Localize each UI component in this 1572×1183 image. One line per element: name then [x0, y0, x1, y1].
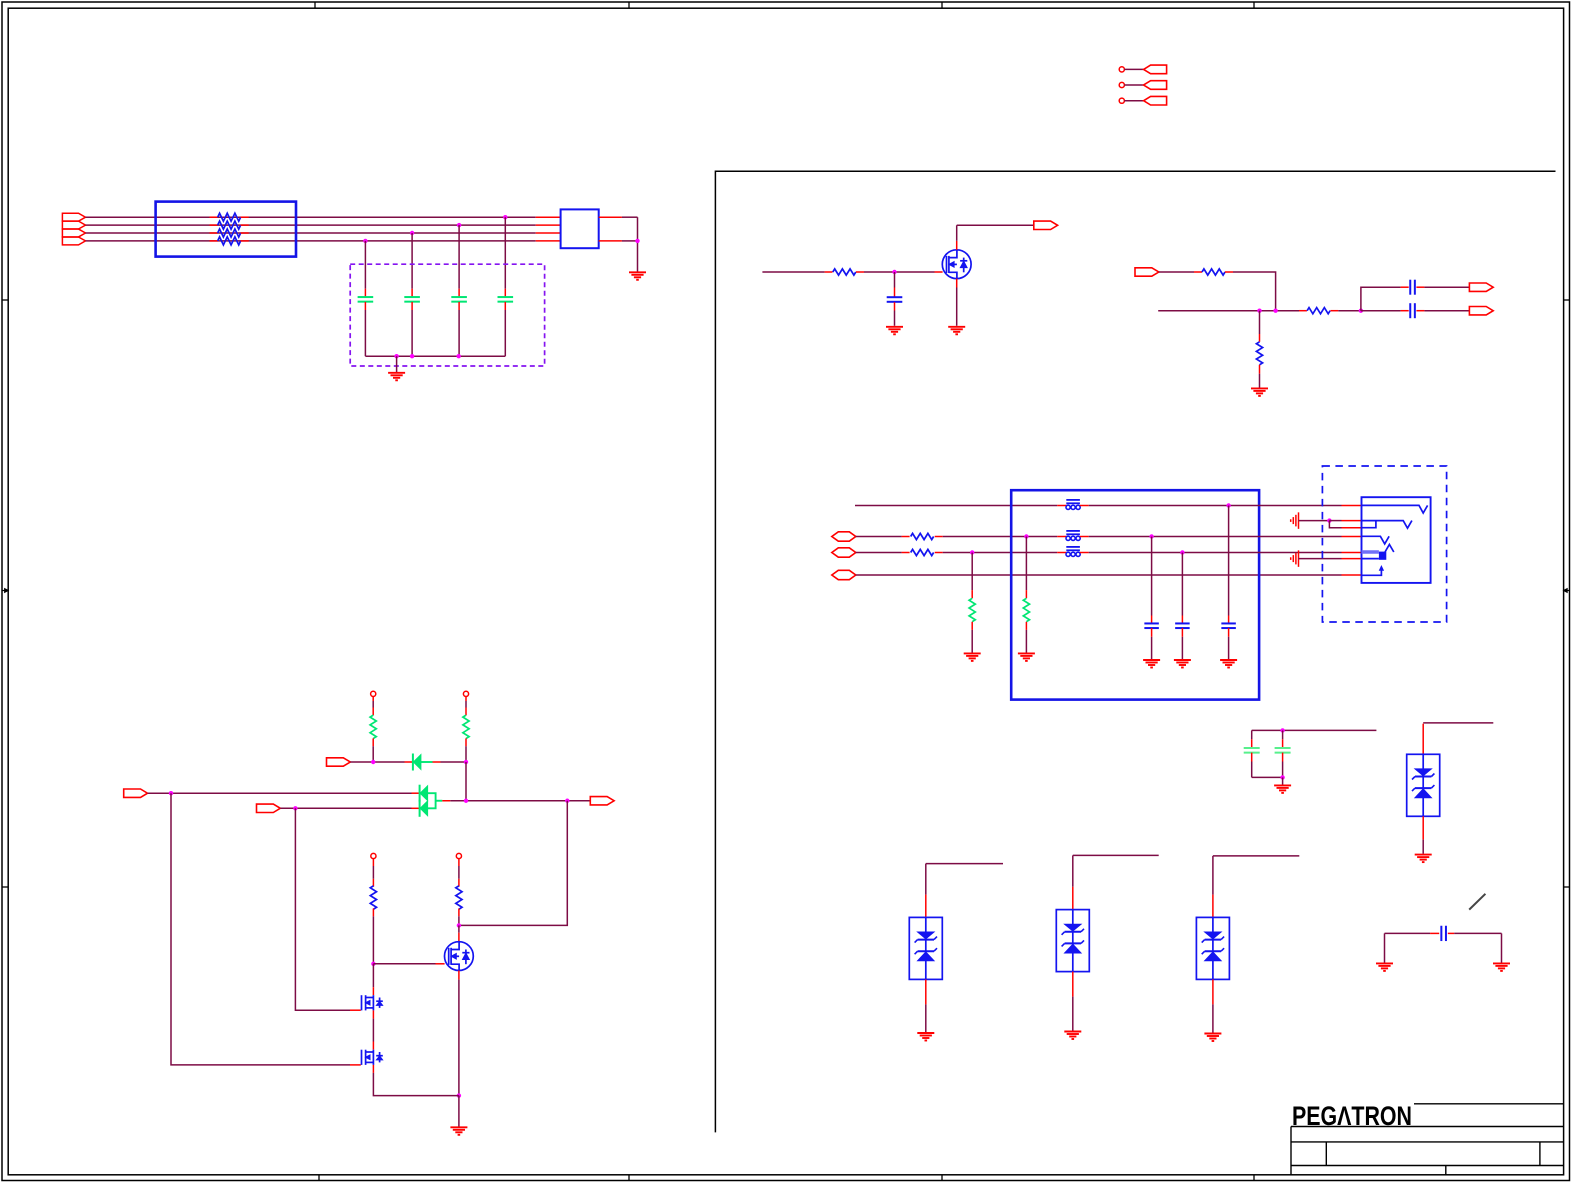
- wire D1 to node: [421, 761, 433, 763]
- port PB: [124, 789, 148, 797]
- wire TVS3 top: [1213, 855, 1299, 857]
- dashed box cap group: [350, 264, 544, 366]
- J3 pin7 internal: [1362, 568, 1382, 575]
- TVS2 gnd lead: [1072, 972, 1074, 997]
- junction dot PD branch: [565, 799, 569, 803]
- section divider line: [715, 171, 1555, 1132]
- port OUT1: [1034, 221, 1058, 229]
- mosfet Q4 small: [361, 1050, 363, 1065]
- wire net3 segs: [856, 552, 902, 554]
- resistor R9: [902, 536, 910, 538]
- wire cap pair top: [1252, 729, 1377, 731]
- resistor R13: [210, 232, 218, 234]
- power pin circle V2: [463, 691, 468, 696]
- dashed box RJ45 area: [1322, 466, 1446, 622]
- port PA: [327, 758, 351, 766]
- wire gate q2: [373, 963, 435, 965]
- power pin circle V1: [371, 691, 376, 696]
- capacitor C9: [1282, 730, 1284, 739]
- svg-text:PEGΛTRON: PEGΛTRON: [1292, 1101, 1412, 1131]
- green resistor R14: [465, 697, 467, 702]
- output port P6 with pin circle: [1119, 82, 1124, 87]
- junction dot green res2: [1024, 534, 1028, 538]
- junction dots on ground bus: [394, 354, 398, 358]
- resistor R10: [902, 552, 910, 554]
- wire V2 node down: [465, 762, 467, 801]
- wire net1 cont: [1089, 505, 1342, 507]
- resistor R5: [825, 271, 833, 273]
- port J1 input bundle (4 stacked ports): [62, 213, 85, 221]
- J3 pin5-6 internal: [1362, 550, 1379, 553]
- port OUT3: [1469, 307, 1493, 315]
- dual diode bracket: [427, 793, 435, 808]
- ground GND7: [1018, 652, 1035, 654]
- ground GND13: [1204, 1033, 1221, 1035]
- chassis ground CG2: [1298, 550, 1300, 567]
- junction dot D1 out: [464, 760, 468, 764]
- junction dot green res1: [970, 550, 974, 554]
- junction dot mid: [464, 799, 468, 803]
- ground GND12: [1064, 1031, 1081, 1033]
- J3 pin4 internal: [1362, 536, 1390, 544]
- wire PC to D3: [280, 807, 411, 809]
- junction dot R16 node: [457, 923, 461, 927]
- wire chassis to pin2: [1329, 520, 1341, 522]
- wire R6 corner: [1233, 272, 1276, 311]
- tap wires down to capacitors: [504, 217, 506, 289]
- junction dots mid node: [1257, 309, 1261, 313]
- TVS diode D6: [1056, 910, 1089, 972]
- spark gap cap C10: [1385, 932, 1431, 934]
- wire PA to D1: [350, 761, 404, 763]
- ground GND at x1182: [1174, 659, 1191, 661]
- junction dots on lan wires: [503, 215, 507, 219]
- wire PC vertical: [295, 808, 350, 1010]
- wire TVS4 top: [1423, 722, 1493, 724]
- J3 pin1 internal: [1362, 505, 1428, 513]
- resistor R14: [210, 240, 218, 242]
- diode D2: [419, 785, 421, 802]
- resistor R12: [210, 224, 218, 226]
- frame center arrow right: [1564, 590, 1570, 592]
- wire chassis to pin3: [1329, 521, 1341, 528]
- wires from input ports to RJ connector: [86, 216, 536, 218]
- junction dot gate q2: [371, 962, 375, 966]
- mosfet Q1: [942, 250, 971, 279]
- capacitor C at x365: [364, 289, 366, 297]
- ground GND2: [629, 271, 646, 273]
- wire net2 cont2: [1089, 536, 1342, 538]
- cap ground bus: [365, 355, 505, 357]
- resistor R16: [458, 859, 460, 866]
- green resistor R11: [971, 553, 973, 591]
- J3 pin2-3 internal: [1362, 521, 1412, 529]
- wire chassis1: [1299, 520, 1330, 522]
- wire up branch: [1361, 287, 1401, 311]
- wire net1: [855, 505, 1057, 507]
- ground GND6: [964, 652, 981, 654]
- resistor R6: [1194, 271, 1202, 273]
- port PD: [590, 797, 614, 805]
- capacitor Cc at x1151: [1151, 537, 1153, 616]
- junction dot chassis1: [1327, 518, 1331, 522]
- junction dot Q2 source: [457, 1093, 461, 1097]
- spark gap left ground: [1384, 933, 1386, 962]
- cap pair bottom wire: [1252, 776, 1283, 778]
- TVS3 lead: [1212, 895, 1214, 918]
- green resistor R13: [372, 697, 374, 702]
- wire PB vertical: [171, 793, 350, 1065]
- RJ45 connector J2: [561, 209, 599, 248]
- ground GND5: [1251, 387, 1268, 389]
- resistor R15: [372, 859, 374, 866]
- wire net2 cont: [943, 536, 1057, 538]
- port MDI1 hex: [832, 532, 856, 541]
- wire net4: [856, 574, 1342, 576]
- resistor R8: [1299, 310, 1307, 312]
- ground GND10: [1415, 854, 1432, 856]
- junction dot cap pair: [1280, 728, 1284, 732]
- frame zone tick marks: [314, 2, 316, 8]
- Q4 source wire: [372, 1065, 374, 1073]
- capacitor Cc at x1228: [1228, 506, 1230, 616]
- spark gap right ground: [1501, 933, 1503, 962]
- ground GND3: [886, 326, 903, 328]
- Q2 source: [458, 971, 460, 980]
- no-stuff slash mark: [1469, 894, 1485, 910]
- junction dot PC: [293, 806, 297, 810]
- resistor pack box RP1: [156, 202, 296, 257]
- wire R8 to cap node: [1338, 310, 1361, 312]
- TVS4 lead: [1422, 724, 1424, 755]
- wire chassis2 to pin6: [1299, 558, 1342, 560]
- resistor R7 to ground: [1259, 311, 1261, 334]
- capacitor C at x412: [411, 289, 413, 297]
- junction dot cap3: [1226, 503, 1230, 507]
- transformer box T1: [1011, 490, 1259, 699]
- wire chain down: [372, 964, 374, 987]
- wire net3 cont: [943, 552, 1057, 554]
- output port P5 with pin circle: [1119, 67, 1124, 72]
- ferrite bead FB2: [1057, 536, 1066, 538]
- ferrite bead FB1: [1057, 505, 1066, 507]
- J2 right pin wires: [599, 216, 622, 218]
- wire PB to D2: [148, 792, 412, 794]
- TVS1 lead: [925, 895, 927, 918]
- resistor R11: [210, 216, 218, 218]
- wire mid node: [1158, 310, 1299, 312]
- capacitor C at x459: [458, 289, 460, 297]
- TVS diode D5: [909, 917, 942, 979]
- TVS diode D7: [1196, 917, 1229, 979]
- wire PD branch down: [459, 801, 567, 926]
- RJ45 jack J3 box: [1362, 497, 1431, 583]
- port IN2: [1135, 268, 1159, 276]
- frame center arrow left: [2, 590, 8, 592]
- diode D1: [412, 754, 414, 771]
- junction dot cap pair bottom: [1280, 775, 1284, 779]
- wire net3 cont2: [1089, 552, 1342, 554]
- wire net2 segs: [856, 536, 902, 538]
- chassis ground CG1: [1298, 512, 1300, 529]
- Q1 drain wire to port: [956, 241, 958, 250]
- junction dot PB: [169, 791, 173, 795]
- TVS4 ground lead: [1422, 816, 1424, 839]
- ground GND at x1228: [1220, 659, 1237, 661]
- Q1 source wire: [956, 279, 958, 288]
- diode D3: [419, 800, 421, 817]
- TVS1 gnd lead: [925, 979, 927, 1004]
- port OUT2: [1469, 283, 1493, 291]
- Q3 to Q4 wire: [372, 1010, 374, 1018]
- ground GND at x1151: [1143, 659, 1160, 661]
- junction dot cap1: [1149, 534, 1153, 538]
- port MDI2 hex: [832, 548, 856, 557]
- junction dot J2 gnd: [635, 239, 639, 243]
- green resistor R12: [1025, 537, 1027, 591]
- junction dot gate node: [892, 270, 896, 274]
- port MDI3 hex: [832, 570, 856, 579]
- junction dot cap2: [1180, 550, 1184, 554]
- wire diodes to PD: [442, 800, 450, 802]
- wire TVS2 top: [1073, 854, 1159, 856]
- TVS diode D4: [1407, 754, 1440, 816]
- ground GND1: [396, 356, 398, 372]
- capacitor C8: [1251, 730, 1253, 739]
- ground GND4: [948, 326, 965, 328]
- wire R16 to Q2: [458, 925, 460, 932]
- mosfet Q2: [445, 942, 474, 971]
- wire IN2 to R6: [1159, 271, 1194, 273]
- port PC: [257, 804, 281, 812]
- wire R5 to gate: [864, 271, 935, 273]
- capacitor C5: [894, 272, 896, 288]
- junction dot PA: [371, 760, 375, 764]
- power pin circle V3: [371, 853, 376, 858]
- power pin circle V4: [456, 853, 461, 858]
- junction dot cap node: [1359, 309, 1363, 313]
- wire to R5: [762, 271, 824, 273]
- ground GND8: [458, 1096, 460, 1127]
- TVS2 lead: [1072, 887, 1074, 910]
- mosfet Q3 small: [361, 995, 363, 1010]
- title block lines: [1414, 1103, 1564, 1105]
- ground GND11: [917, 1032, 934, 1034]
- ground GND9: [1282, 777, 1284, 784]
- TVS3 gnd lead: [1212, 979, 1214, 1004]
- capacitor C7: [1361, 310, 1401, 312]
- capacitor Cc at x1182: [1181, 553, 1183, 616]
- output port P7 with pin circle: [1119, 98, 1124, 103]
- wire TVS1 top: [926, 863, 1003, 865]
- capacitor C6: [1401, 286, 1409, 288]
- ferrite bead FB3: [1057, 552, 1066, 554]
- capacitor C at x505: [504, 289, 506, 297]
